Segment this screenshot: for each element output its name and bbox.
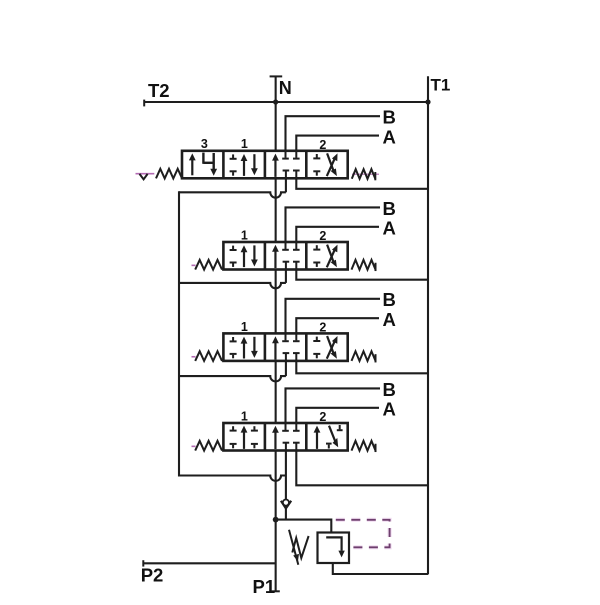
wire relief inlet [276,520,332,533]
svg-text:2: 2 [319,229,326,243]
wire P2 line [143,560,275,566]
label 1 of V4 [241,409,248,423]
stub to left port under V1 [285,178,287,192]
label 1 of V2 [241,228,248,242]
check valve CV1 [281,500,291,509]
svg-text:B: B [383,198,396,219]
valve V3 position 2 symbols [313,336,337,359]
svg-text:A: A [383,309,396,330]
junction P dot [273,517,279,523]
wire link right of section 2 [296,270,428,280]
relief valve RV1 flow arrow [326,537,345,557]
svg-text:T2: T2 [148,80,170,101]
svg-text:A: A [383,126,396,147]
svg-text:P1: P1 [253,576,276,597]
svg-text:N: N [279,78,292,98]
wire port B of V4 [286,388,381,423]
label B of V2 [383,198,396,219]
junction N dot [273,99,278,104]
label P1 [253,576,276,597]
valve V2 position 1 symbols [230,245,258,267]
wire T1 vertical rail [427,76,429,574]
svg-text:B: B [383,289,396,310]
label 1 of V3 [241,320,248,334]
svg-text:2: 2 [319,410,326,424]
valve V2 body [223,242,347,270]
svg-text:2: 2 [319,320,326,334]
spring right of V3 [352,351,376,362]
wire link right of section 1 [296,178,428,189]
label T2 [148,80,170,101]
relief valve RV1 adjustable spring [289,530,309,565]
label A of V3 [383,309,396,330]
label T1 [431,76,451,95]
svg-text:3: 3 [201,137,208,151]
label 2 of V4 [319,410,326,424]
wire N inlet line [270,76,283,150]
label A of V4 [383,399,396,420]
valve V1 position 1 symbols [230,154,258,176]
svg-text:B: B [383,107,396,128]
svg-text:A: A [383,399,396,420]
svg-text:A: A [383,218,396,239]
junction T1 dot [425,99,430,104]
pilot stub left of V1 [136,174,155,180]
wire port A of V1 [296,136,379,151]
valve V1 neutral position symbols [272,151,300,179]
label B of V1 [383,107,396,128]
valve V4 body [223,423,347,451]
spring left of V3 [192,351,223,361]
relief valve RV1 body [318,533,350,564]
label 2 of V1 [319,138,326,152]
spring left of V1 [156,169,182,179]
wire relief return [333,563,429,574]
valve V3 body [223,333,347,361]
svg-text:2: 2 [319,138,326,152]
spring right of V2 [352,260,376,271]
label P2 [141,565,164,586]
valve V2 position 2 symbols [313,245,337,268]
wire link right of section 3 [296,361,428,373]
valve V3 position 1 symbols [230,337,258,359]
wire link right of section 4 [296,451,428,486]
svg-text:1: 1 [241,409,248,423]
valve V4 neutral position symbols [272,423,300,451]
wire port A of V2 [296,227,379,242]
wire open-centre channel [272,178,280,591]
spring right of V1 [352,169,379,180]
label A of V1 [383,126,396,147]
valve V1 position 2 symbols [313,153,337,176]
svg-text:1: 1 [241,137,248,151]
svg-text:1: 1 [241,320,248,334]
wire left tank gallery [178,191,180,476]
wire carryover with check to relief under V4 [285,451,287,520]
pilot line dashed [336,520,390,548]
svg-text:B: B [383,379,396,400]
stub to left port under V2 [285,270,287,283]
svg-text:P2: P2 [141,565,164,586]
svg-text:1: 1 [241,228,248,242]
wire tank link left of section 3 [179,376,286,381]
valve V1 position 3 float symbols [189,153,217,176]
label 3 of V1 [201,137,208,151]
valve V2 neutral position symbols [272,242,300,270]
valve V1 body [182,151,348,179]
label 1 of V1 [241,137,248,151]
spring left of V2 [192,260,223,270]
wire port A of V4 [296,408,379,423]
valve V4 position 2 symbols [314,425,343,449]
wire port B of V1 [286,116,381,151]
wire port A of V3 [296,318,379,333]
svg-text:T1: T1 [431,76,451,95]
wire port B of V2 [286,207,381,242]
wire tank link left of section 4 [179,476,286,481]
wire tank link left of section 2 [179,283,286,288]
spring right of V4 [352,441,376,452]
spring left of V4 [192,441,223,451]
valve V3 neutral position symbols [272,333,300,361]
stub to left port under V3 [285,361,287,376]
label N [279,78,292,98]
valve V4 position 1 symbols [230,426,258,449]
wire port B of V3 [286,299,381,334]
label A of V2 [383,218,396,239]
label B of V4 [383,379,396,400]
label 2 of V2 [319,229,326,243]
label B of V3 [383,289,396,310]
label 2 of V3 [319,320,326,334]
wire tank link left of section 1 [179,192,286,197]
wire T2 tank line [144,100,428,107]
